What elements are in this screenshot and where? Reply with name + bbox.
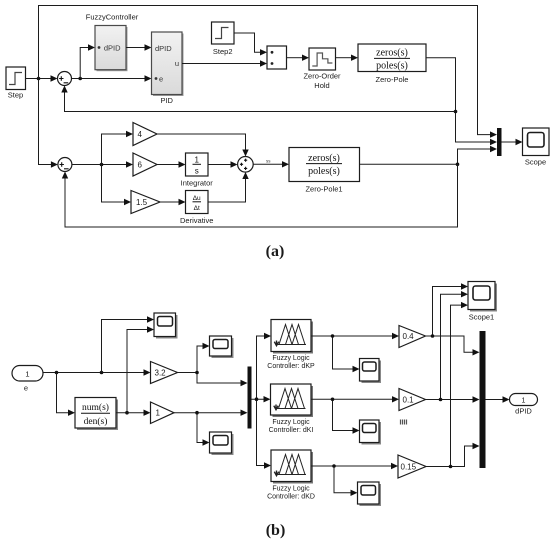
svg-text:Integrator: Integrator xyxy=(181,179,214,188)
svg-text:0.1: 0.1 xyxy=(403,396,415,405)
block Step2 xyxy=(212,22,235,44)
wire dKD out to Gain0.15 and scope xyxy=(311,463,398,496)
gain 0.4 xyxy=(399,326,426,348)
svg-text:(a): (a) xyxy=(266,243,285,260)
block Zero-Order Hold xyxy=(309,48,336,70)
svg-text:Fuzzy Logic: Fuzzy Logic xyxy=(272,419,310,426)
wire down route Step to Sum2 xyxy=(39,79,58,168)
outport 1 (dPID) xyxy=(510,394,538,406)
wire branch up to FuzzyController xyxy=(80,44,95,78)
block Zero-Pole xyxy=(358,44,426,72)
wire FuzzyController to PID dPID input xyxy=(126,44,152,50)
svg-text:1: 1 xyxy=(194,156,199,165)
svg-text:FuzzyController: FuzzyController xyxy=(86,13,139,22)
scope Scope1 xyxy=(468,282,497,312)
wire Gain1 out (junction, to scope and bar) xyxy=(174,410,248,446)
svg-text:6: 6 xyxy=(138,161,143,170)
mux Mux2 (2-input) xyxy=(267,46,287,69)
wire dKP out to Gain0.4 and scope xyxy=(311,333,399,372)
wire Zero-Pole1 output to Mux port3 xyxy=(360,146,498,165)
svg-text:dPID: dPID xyxy=(515,407,532,416)
svg-text:Hold: Hold xyxy=(314,81,329,90)
wire Gain1.5 to Derivative xyxy=(160,199,186,205)
subsystem FuzzyController xyxy=(95,26,128,72)
svg-text:Step2: Step2 xyxy=(213,47,233,56)
wire Zero-Pole output to Mux port2 xyxy=(426,58,497,146)
wire top route Step to Mux port1 xyxy=(39,6,498,138)
wire PID u output to Mux2 xyxy=(182,60,267,66)
subsystem PID xyxy=(152,32,184,96)
svg-text:Step: Step xyxy=(8,91,23,100)
svg-text:Zero-Order: Zero-Order xyxy=(303,72,341,81)
svg-text:Fuzzy Logic: Fuzzy Logic xyxy=(272,486,310,493)
scope of 3.2 path xyxy=(210,336,234,358)
wire feedback to Sum1 minus xyxy=(61,86,455,112)
wire Sum3 to Zero-Pole1 xyxy=(253,161,289,167)
svg-text:Δt: Δt xyxy=(194,205,200,212)
wire Gain3.2 out (junction, to scope and bar) xyxy=(178,343,248,386)
svg-text:Zero-Pole: Zero-Pole xyxy=(376,75,409,84)
wire Integrator to Sum3 xyxy=(208,161,238,167)
wire branch up to scope e port2 xyxy=(127,326,154,412)
wire Gain4 to Sum3 top xyxy=(157,134,249,157)
block Derivative xyxy=(186,191,209,214)
gain 0.15 xyxy=(398,455,426,478)
scope of dKI xyxy=(360,420,382,445)
transfer function num(s)/den(s) xyxy=(75,398,118,431)
svg-text:Controller: dKI: Controller: dKI xyxy=(269,427,314,434)
inport 1 (e) xyxy=(12,366,43,382)
gain 0.1 xyxy=(399,389,426,411)
gain 1 xyxy=(151,402,175,424)
wire Step2 to Mux2 xyxy=(234,33,267,56)
svg-text:poles(s): poles(s) xyxy=(376,61,408,72)
mux bar1 (black) xyxy=(248,367,252,429)
svg-text:Δu: Δu xyxy=(193,195,201,202)
svg-text:Fuzzy Logic: Fuzzy Logic xyxy=(272,355,310,362)
gain 4 xyxy=(133,123,157,146)
svg-text:PID: PID xyxy=(160,96,173,105)
svg-text:Scope1: Scope1 xyxy=(469,313,494,322)
gain 6 xyxy=(133,153,157,176)
junction node e to scope xyxy=(100,371,104,375)
svg-text:e: e xyxy=(159,74,163,83)
junction node after Step xyxy=(37,77,41,81)
wire Gain0.15 out to Scope1 and bar2 xyxy=(426,302,480,468)
junction node Zero-Pole1 output xyxy=(456,163,460,167)
svg-text:1: 1 xyxy=(522,398,526,405)
mux Mux (3-input, black bar) xyxy=(497,128,502,156)
scope of 1 path xyxy=(210,432,234,455)
wire branch up to scope e port1 xyxy=(102,316,155,372)
wire feedback to Sum2 minus xyxy=(62,164,458,227)
block Zero-Pole1 xyxy=(289,148,360,182)
wire Gain0.4 out to Scope1 and bar2 xyxy=(426,283,480,355)
wire inport to Gain3.2 xyxy=(43,369,151,375)
fuzzy logic controller dKI xyxy=(271,384,314,417)
svg-text:0.4: 0.4 xyxy=(403,332,415,341)
wire Zero-Order Hold to Zero-Pole xyxy=(336,55,359,61)
svg-text:1: 1 xyxy=(25,370,29,379)
svg-text:dPID: dPID xyxy=(104,43,121,52)
wire branch up to Gain4 xyxy=(102,131,134,165)
junction node after Sum1 xyxy=(78,77,82,81)
svg-text:Derivative: Derivative xyxy=(180,216,213,225)
wire bar1 out to fuzzy controllers xyxy=(252,333,272,469)
sum junction Sum1 xyxy=(58,72,72,86)
scope of dKP xyxy=(360,359,382,384)
wire Mux2 to Zero-Order Hold xyxy=(287,55,310,61)
sum junction Sum2 xyxy=(58,158,72,172)
junction node feedback tap xyxy=(454,110,458,114)
wire num/den output to Gain1 xyxy=(116,410,151,416)
svg-text:dPID: dPID xyxy=(155,44,172,53)
svg-text:Controller: dKP: Controller: dKP xyxy=(267,363,315,370)
svg-text:num(s): num(s) xyxy=(82,402,109,413)
wire Sum1 output to PID e input xyxy=(72,75,152,81)
wire branch down to Gain1.5 xyxy=(102,165,132,206)
svg-text:3.2: 3.2 xyxy=(155,369,167,378)
scope Scope xyxy=(523,128,550,156)
svg-text:Zero-Pole1: Zero-Pole1 xyxy=(305,185,342,194)
svg-text:0.15: 0.15 xyxy=(401,463,417,472)
scope of dKD xyxy=(358,482,382,506)
junction node after Sum2 xyxy=(100,163,104,167)
wire Gain0.1 out to Scope1 and bar2 xyxy=(426,291,480,403)
gain 1.5 xyxy=(131,191,160,214)
svg-text:den(s): den(s) xyxy=(84,416,108,427)
block Step xyxy=(6,67,26,90)
wire Gain6 to Integrator xyxy=(157,161,186,167)
wire branch down to num/den xyxy=(57,373,76,416)
scope (e and de) xyxy=(154,313,178,339)
svg-text:u: u xyxy=(175,59,179,68)
wire dKI out to Gain0.1 and scope xyxy=(311,396,399,434)
gain 3.2 xyxy=(151,362,178,384)
marks IIII annotation xyxy=(401,420,407,425)
block Integrator xyxy=(186,153,209,176)
svg-text:s: s xyxy=(195,167,199,176)
sum junction Sum3 xyxy=(238,157,254,173)
wire Mux to Scope xyxy=(502,139,523,145)
svg-text:4: 4 xyxy=(138,130,143,139)
fuzzy logic controller dKP xyxy=(271,320,313,354)
svg-text:e: e xyxy=(24,384,28,393)
svg-text:1.5: 1.5 xyxy=(136,198,148,207)
svg-text:poles(s): poles(s) xyxy=(308,166,340,177)
svg-text:Scope: Scope xyxy=(525,158,546,167)
svg-text:1: 1 xyxy=(156,409,161,418)
wire Sum2 output to Gain6 xyxy=(72,161,133,167)
svg-text:zeros(s): zeros(s) xyxy=(376,48,408,59)
wire bar2 to outport dPID xyxy=(486,396,510,402)
svg-text:(b): (b) xyxy=(266,522,286,539)
fuzzy logic controller dKD xyxy=(271,450,313,484)
wire Derivative to Sum3 bottom xyxy=(208,172,249,202)
junction node e to TF xyxy=(55,371,59,375)
mux bar2 (black) xyxy=(480,331,486,468)
svg-text:ss: ss xyxy=(266,159,271,164)
junction node TF out xyxy=(125,411,129,415)
svg-text:Controller: dKD: Controller: dKD xyxy=(267,494,315,501)
svg-text:zeros(s): zeros(s) xyxy=(308,153,340,164)
wire Step to Sum1 xyxy=(26,75,58,81)
